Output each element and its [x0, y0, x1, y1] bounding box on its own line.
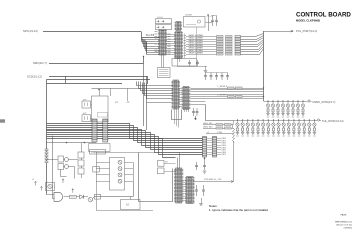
capacitor C6 — [215, 16, 218, 27]
resistor RZ zigzag — [233, 121, 235, 143]
ic U1 (port A) — [158, 30, 167, 56]
wire row 1 — [186, 36, 217, 38]
svg-text:HSMC_ROW(1/1:7): HSMC_ROW(1/1:7) — [313, 100, 336, 104]
row2 rail — [234, 120, 318, 122]
wire bus line 7 — [47, 135, 203, 153]
pin labels U1a — [155, 31, 158, 33]
ground G1 — [205, 66, 207, 70]
transistor QB1 — [65, 158, 69, 162]
wire +5 row — [206, 133, 234, 135]
power +5 small c — [62, 179, 64, 183]
transistor Q210 — [287, 119, 290, 136]
box X3a — [158, 161, 165, 167]
wire xtal drop b — [127, 89, 129, 102]
transistor Q27 — [272, 119, 275, 136]
capacitor C21 — [202, 185, 205, 196]
wire QB1 to ladder — [69, 159, 79, 161]
wire block in 1 — [96, 162, 110, 164]
tick T — [235, 36, 241, 38]
wire cap tie — [213, 15, 217, 17]
wire POL_PORT — [264, 31, 294, 33]
wire bus line 4 — [47, 130, 203, 146]
svg-text:CONTROL BOARD: CONTROL BOARD — [296, 12, 351, 19]
capacitor C11 — [210, 73, 213, 81]
transistor Q5 box — [46, 183, 55, 191]
wire QB2 out — [69, 167, 75, 179]
resistor R12 — [217, 41, 224, 43]
resistor R27 — [226, 53, 233, 55]
wire block out 3 — [125, 174, 134, 176]
svg-text:L_HOW 8: L_HOW 8 — [218, 95, 228, 97]
wire SMC riser — [143, 57, 145, 64]
wire SMC long drop — [143, 63, 145, 126]
box X3b — [158, 168, 165, 174]
transistor QB2 — [65, 165, 69, 169]
box below J bars — [89, 144, 111, 152]
ic U5 (driver A) — [172, 80, 181, 109]
wire group2 mid rows — [179, 88, 184, 90]
wire row 5 — [186, 46, 217, 48]
svg-text:MODEL CLKF666B: MODEL CLKF666B — [296, 19, 320, 23]
wire pair mate — [190, 98, 263, 100]
capacitor C13 — [221, 73, 224, 81]
wire spine to QA1 — [47, 159, 59, 161]
wire r to d — [76, 196, 79, 198]
wire long vertical b — [184, 34, 186, 59]
wire g2r short — [190, 101, 205, 103]
svg-text:MRP23R6521-01: MRP23R6521-01 — [335, 221, 353, 223]
resistor R51 — [216, 127, 223, 129]
ic U3 small — [158, 68, 171, 78]
wire d to q — [84, 196, 88, 198]
tick T — [235, 38, 241, 40]
buzzer BZ1 box — [121, 200, 141, 210]
resistor R41 — [236, 96, 243, 98]
capacitor C16 — [192, 108, 195, 116]
svg-text:1. Ignore indicates that the p: 1. Ignore indicates that the part is not… — [209, 208, 268, 212]
wire to block — [101, 182, 134, 197]
resistor R30 — [70, 195, 77, 198]
ic U8 — [185, 177, 195, 204]
transistor Q21 — [241, 119, 244, 136]
left edge mark — [0, 119, 5, 122]
pin labels U1b — [168, 33, 171, 35]
wire group1 inputs — [142, 38, 160, 40]
resistor R11 — [217, 38, 224, 40]
row1 rail — [264, 101, 308, 103]
connector bar J2 — [102, 119, 108, 142]
wire U5 bottom drops — [174, 109, 176, 124]
wire LED row 1 — [203, 124, 234, 126]
wire block in 3 — [96, 174, 110, 176]
enclosure bottom — [96, 210, 153, 212]
box K1 — [95, 194, 101, 199]
wire to trunk — [241, 49, 264, 55]
wire bus b — [47, 83, 123, 85]
wire group3 loop left — [139, 153, 173, 202]
resistor R10 — [217, 36, 224, 38]
wire to trunk — [241, 34, 264, 37]
ground G2 — [201, 198, 203, 203]
power +5 arrow b — [41, 186, 43, 190]
transistor Q15 — [291, 100, 294, 117]
capacitor C12 — [215, 73, 218, 81]
wire grp2 row 2 — [190, 96, 263, 98]
box QA2 — [58, 164, 64, 170]
resistor R17 — [217, 53, 224, 55]
wire xtal b — [91, 118, 92, 120]
capacitor C18 — [195, 162, 198, 170]
svg-text:L_MOW 8: L_MOW 8 — [218, 86, 228, 88]
svg-text:Bus B/B: Bus B/B — [146, 35, 155, 37]
wire qa-qb a — [64, 159, 65, 161]
resistor R26 — [226, 51, 233, 53]
wire bus line 5 — [47, 131, 203, 148]
box QA1 — [58, 156, 64, 162]
resistor R20 — [226, 36, 233, 38]
resistor R60 — [225, 124, 232, 126]
transistor Q20 — [236, 119, 239, 136]
wire group2 inputs — [137, 82, 174, 86]
transistor Q22 — [246, 119, 249, 136]
resistor array RA1 — [202, 137, 207, 158]
ladder box LA3 — [78, 168, 84, 174]
wire qa2 down — [61, 170, 67, 177]
svg-text:BZ: BZ — [126, 204, 130, 207]
wire loop below U5 — [172, 110, 182, 120]
wire rail2 feed — [206, 105, 234, 121]
transistor Q17 — [301, 100, 304, 117]
wire g2r — [190, 91, 263, 93]
wire box to caps — [205, 22, 212, 24]
wire LED row 2 — [203, 128, 234, 130]
svg-text:SPC(1/1:12): SPC(1/1:12) — [23, 29, 38, 33]
wire bus line 2 — [47, 126, 203, 141]
wire bz link — [130, 197, 132, 200]
tick T — [235, 51, 241, 53]
wire left spine — [46, 80, 48, 195]
wire cap bank tie — [206, 72, 228, 74]
transistor Q24 — [256, 119, 259, 136]
transistor Q23 — [251, 119, 254, 136]
resistor R13 — [217, 43, 224, 45]
resistor R14 — [217, 46, 224, 48]
wire SPC — [43, 31, 141, 33]
wire mid rail — [47, 142, 97, 144]
transistor Q16 — [296, 100, 299, 117]
photo block U9 — [110, 158, 125, 191]
wire group3 mid rows — [182, 180, 187, 182]
svg-text:SEG8 0-88MR: SEG8 0-88MR — [189, 52, 204, 54]
ground G3 — [203, 171, 207, 173]
wire SMC — [49, 63, 144, 65]
svg-text:LED2 330: LED2 330 — [203, 126, 213, 128]
capacitor box XC2 — [82, 115, 91, 122]
wire U1B drops — [177, 59, 179, 67]
RA row stubs and labels — [207, 138, 213, 140]
wire g2r — [190, 94, 263, 96]
node row1 out — [308, 100, 310, 102]
tick T — [235, 48, 241, 50]
wire block in 2 — [96, 168, 110, 170]
wire SCD drop — [147, 76, 149, 84]
wire grp2 row 1 — [190, 88, 263, 90]
svg-text:SMC(4/1:7): SMC(4/1:7) — [33, 61, 47, 65]
diode D1 — [80, 195, 84, 199]
sub block outline — [172, 59, 197, 67]
transistor Q213 — [302, 119, 305, 136]
svg-text:C3 C4: C3 C4 — [157, 17, 164, 19]
transistor Q212 — [297, 119, 300, 136]
resistor R40 — [236, 87, 243, 89]
resistor R31 — [228, 96, 235, 98]
capacitor block C2 — [156, 25, 172, 30]
ladder box LA1 — [78, 152, 84, 158]
resistor R24 — [226, 46, 233, 48]
capacitor C7 — [188, 60, 191, 66]
resistor R25 — [226, 48, 233, 50]
ic U6 (driver B) — [182, 87, 191, 110]
capacitor box XC1 — [82, 101, 91, 108]
wire block out 4 — [125, 181, 134, 183]
wire to trunk — [241, 38, 264, 42]
resistor ticks on spine — [45, 149, 48, 151]
wire U6 bottom drops — [184, 110, 186, 113]
transistor Q26 — [267, 119, 270, 136]
wire row 4 — [186, 44, 217, 46]
wire SCD — [49, 76, 147, 78]
wire junction riser — [65, 76, 67, 83]
wire trunk vertical — [263, 31, 265, 101]
transistor Q29 — [282, 119, 285, 136]
wire to trunk — [241, 44, 264, 50]
wire bus line 8 — [47, 137, 203, 155]
wire row 2 — [186, 39, 217, 41]
label box LB1 — [90, 150, 106, 155]
wire block out 1 — [125, 162, 134, 164]
svg-text:21/09/02: 21/09/02 — [343, 227, 352, 229]
transistor Q214 — [308, 119, 311, 136]
wire to trunk — [241, 42, 264, 47]
wire xtal drop a — [110, 89, 112, 97]
capacitor C20 — [195, 185, 198, 196]
resistor R50 — [216, 124, 223, 126]
wire gate out — [64, 196, 70, 198]
capacitor C10 — [204, 73, 207, 81]
wire U1 to U3 — [161, 55, 163, 68]
reset circuit box — [184, 17, 206, 28]
ic U1 (port B) — [174, 32, 183, 59]
transistor Q14 — [286, 100, 289, 117]
svg-text:1 8W: 1 8W — [217, 132, 222, 134]
capacitor row above J1 — [98, 113, 108, 118]
wire row 7 — [186, 51, 217, 53]
pin labels U1c — [184, 35, 187, 37]
resistor R23 — [226, 43, 233, 45]
crystal sub-circuit box — [92, 96, 109, 122]
resistor R16 — [217, 51, 224, 53]
transistor Q25 — [261, 119, 264, 136]
wire block in 4 — [96, 181, 110, 183]
wire rail y152 — [96, 152, 157, 154]
wire X3b out — [164, 171, 176, 173]
transistor Q13 — [281, 100, 284, 117]
transistor Q10 — [266, 100, 269, 117]
wire row y66 — [177, 66, 207, 68]
wire xtal a — [91, 104, 92, 106]
node gnd dot — [195, 116, 197, 118]
ladder box LA2 — [78, 160, 84, 166]
node RA1 bottom — [204, 158, 206, 160]
capacitor block C1 — [156, 19, 172, 24]
wire block out 2 — [125, 168, 134, 170]
wire long vertical a — [196, 27, 198, 59]
wire bus line 3 — [47, 128, 203, 143]
svg-text:THL_ROW(1/1:12): THL_ROW(1/1:12) — [322, 119, 344, 123]
enclosure left — [96, 153, 98, 211]
wire SPC corner — [142, 32, 160, 38]
tick T — [235, 46, 241, 48]
wire bus line 9 — [47, 139, 176, 158]
capacitor C5 — [211, 16, 214, 27]
power +5 arrow a — [35, 181, 37, 185]
wire bus a — [47, 79, 151, 81]
wire q up — [93, 197, 101, 199]
wire bus line 6 — [47, 133, 203, 150]
transistor Q215 — [313, 119, 316, 136]
wire RTN drop — [233, 141, 235, 182]
svg-text:LED1 330: LED1 330 — [203, 123, 213, 125]
transistor Q12 — [276, 100, 279, 117]
capacitor C19 — [203, 162, 206, 170]
wire to trunk — [241, 36, 264, 40]
ic U2 top — [175, 22, 183, 31]
ic U7 — [174, 168, 183, 203]
wire xtal top rail — [92, 88, 142, 90]
wire row 8 — [186, 54, 217, 56]
resistor R30 — [228, 87, 235, 89]
resistor R15 — [217, 48, 224, 50]
wire SCD long drop — [146, 76, 148, 130]
wire to trunk — [241, 40, 264, 45]
wire drop b — [53, 136, 55, 199]
svg-text:PAGE: PAGE — [341, 213, 347, 216]
transistor Q6 — [88, 197, 93, 202]
tick T — [235, 43, 241, 45]
junction box on enclosure — [93, 167, 100, 173]
tick T — [235, 53, 241, 55]
wire U8 to RTN — [193, 181, 196, 183]
resistor array RA2 — [212, 137, 217, 158]
wire to trunk — [241, 47, 264, 52]
wire block collect — [133, 162, 135, 181]
wire g2r short — [190, 104, 205, 106]
resistor R61 — [225, 127, 232, 129]
wire ladder spine — [81, 143, 83, 153]
svg-text:SCD(1/1:12): SCD(1/1:12) — [27, 75, 42, 79]
wire row 3 — [186, 41, 217, 43]
tick T — [235, 41, 241, 43]
power +5V arrow — [207, 14, 209, 16]
node top dot — [98, 89, 100, 91]
wire RTN horizontal — [196, 181, 234, 183]
svg-text:RTN KBD GL_OW: RTN KBD GL_OW — [204, 179, 221, 181]
buzzer gate — [54, 192, 63, 201]
capacitor C14 — [226, 73, 229, 81]
wire into U5 bottom left — [147, 102, 172, 104]
svg-text:U4 RST: U4 RST — [185, 15, 193, 17]
svg-text:(Sheet 17 of 21): (Sheet 17 of 21) — [336, 223, 352, 226]
wire row 6 — [186, 49, 217, 51]
wire gate input a — [47, 194, 55, 196]
wire pair mate — [190, 89, 263, 91]
resistor R21 — [226, 38, 233, 40]
wire U7 top stubs — [177, 158, 179, 169]
transistor Q11 — [271, 100, 274, 117]
wire +5V rail — [208, 15, 210, 32]
wire qa-qb b — [64, 166, 65, 168]
transistor Q28 — [277, 119, 280, 136]
resistor R22 — [226, 41, 233, 43]
wire group1 mid rows — [166, 34, 176, 36]
connector bar J1 — [92, 119, 98, 142]
wire X3a out — [164, 163, 176, 165]
capacitor C8 — [196, 60, 199, 66]
wire bus line 1 — [47, 124, 203, 139]
capacitor C17 — [196, 108, 199, 116]
node row2 out — [317, 119, 319, 121]
svg-text:POL_PORT(1/1:2): POL_PORT(1/1:2) — [296, 29, 317, 33]
transistor Q211 — [292, 119, 295, 136]
power +5 small — [72, 189, 74, 193]
